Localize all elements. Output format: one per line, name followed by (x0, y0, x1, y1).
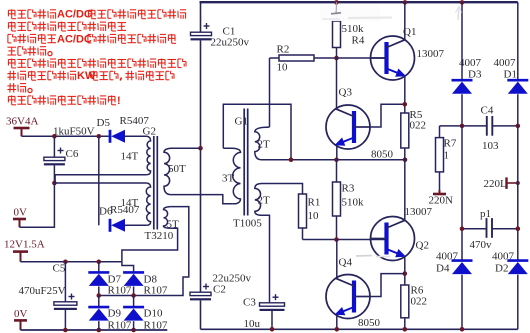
junction D5/D6 cathode node (97, 134, 102, 139)
svg-text:D9: D9 (108, 308, 122, 320)
transistor Q2 13007 (371, 206, 433, 261)
transformer G2 core (154, 136, 158, 230)
wire: midpoint down to Q2 collector (404, 160, 406, 220)
svg-text:D4: D4 (436, 263, 450, 275)
svg-text:220L: 220L (484, 178, 508, 190)
wire: Q2 emitter to R6 (404, 256, 406, 285)
svg-text:Q3: Q3 (339, 87, 353, 99)
junction top rail / Q1 collector (403, 0, 408, 5)
capacitor C1 22u250v (191, 23, 250, 49)
transistor Q1 13007 (371, 26, 445, 80)
transformer G1/T1005 labels (222, 116, 270, 230)
wire: 2T upper top to R2 (269, 58, 271, 127)
capacitor C6 (44, 136, 79, 183)
wire: C1 bottom to C2 top (bus) (200, 40, 202, 292)
svg-text:C3: C3 (243, 297, 256, 309)
svg-text:p1: p1 (480, 208, 491, 220)
svg-text:0V: 0V (14, 308, 28, 320)
svg-text:D3: D3 (468, 69, 482, 81)
svg-text:14T: 14T (121, 197, 139, 209)
wire: Q1 collector to top rail (404, 2, 406, 40)
junction Q4 emitter / rail (335, 327, 340, 332)
svg-text:C5: C5 (53, 263, 66, 275)
svg-text:10: 10 (308, 210, 320, 222)
faint pencil arrow artifact (456, 6, 463, 20)
winding G2 lower 14T (146, 183, 150, 225)
svg-text:510k: 510k (342, 197, 365, 209)
svg-text:13007: 13007 (417, 48, 445, 60)
junction p1 / D3D4 column (460, 226, 465, 231)
node: transformer center tap (52, 181, 57, 186)
transistor Q4 8050 (326, 257, 381, 330)
diode D5 R5407 (97, 115, 150, 143)
resistor R5 022 (401, 109, 426, 160)
svg-text:R1: R1 (308, 197, 321, 209)
junction D7 top (97, 260, 102, 265)
svg-text:AC/DC: AC/DC (57, 33, 92, 45)
svg-text:D10: D10 (144, 308, 163, 320)
diode D8 R107 (123, 272, 168, 296)
svg-text:1: 1 (444, 150, 450, 162)
winding G2 secondary 50T (164, 148, 171, 194)
wire: bottom negative rail (power section) (201, 328, 518, 330)
wire: 5T bottom lead to +12V rail (122, 228, 178, 272)
junction midpoint / 3T-2T node (289, 158, 294, 163)
svg-text:R107: R107 (108, 320, 132, 332)
svg-text:R107: R107 (108, 285, 132, 297)
wire: D5-D6 cathode link (98, 136, 100, 225)
junction C6 top (52, 134, 57, 139)
junction base rail / R4 Q3 (334, 56, 339, 61)
wire: center tap pair (55, 174, 147, 176)
svg-text:0V: 0V (14, 207, 28, 219)
junction top rail / D3 (460, 0, 465, 5)
wire: +12V rail (21, 261, 122, 263)
wire: Q4 emitter to bottom rail (336, 315, 338, 330)
transformer G2/T3210 labels (121, 126, 187, 242)
svg-text:022: 022 (411, 296, 428, 308)
capacitor C5 470uF25V (19, 262, 77, 330)
svg-text:510k: 510k (342, 23, 365, 35)
winding G1 fb lower 2T (255, 184, 262, 216)
svg-text:4007: 4007 (494, 57, 517, 69)
junction C4 line / D3 (460, 124, 465, 129)
svg-text:220N: 220N (429, 195, 454, 207)
svg-text:T1005: T1005 (233, 218, 262, 230)
wire: rail drop to C1 (200, 2, 202, 32)
svg-text:8050: 8050 (358, 317, 381, 329)
svg-text:14T: 14T (121, 151, 139, 163)
wire: top HV rail (200, 1, 518, 3)
svg-text:Q4: Q4 (339, 257, 353, 269)
junction p1 / D1D2 column (516, 226, 521, 231)
wire: 0V to center tap (20, 183, 55, 227)
svg-text:R3: R3 (342, 183, 355, 195)
svg-text:103: 103 (482, 140, 499, 152)
svg-text:C4: C4 (481, 105, 494, 117)
svg-text:13007: 13007 (405, 206, 433, 218)
wire: base rail Q1 (314, 57, 387, 59)
junction D10 bottom (131, 328, 136, 333)
junction Q1 emitter / Q3 base (403, 102, 408, 107)
capacitor C3 10u (243, 294, 285, 330)
junction bridge mid / D7-D9 (97, 293, 102, 298)
wire: Q4 base to Q2 emitter (370, 274, 405, 297)
diode D3 4007 (452, 2, 482, 126)
resistor R3 510k (333, 160, 365, 240)
svg-text:R107: R107 (144, 285, 168, 297)
svg-text:D2: D2 (495, 263, 508, 275)
terminal 220L (484, 177, 520, 190)
diode D2 4007 (492, 251, 528, 330)
junction C4 line / D1 (516, 124, 521, 129)
svg-text:R7: R7 (444, 138, 457, 150)
winding G2 aux 5T (164, 207, 171, 229)
svg-text:G2: G2 (143, 126, 156, 138)
svg-text:10: 10 (277, 62, 289, 74)
white smudge patch (320, 5, 380, 21)
svg-text:D1: D1 (504, 69, 517, 81)
wire: D3-D4 column (461, 126, 463, 261)
junction Q2 emitter / Q4 base (403, 271, 408, 276)
transformer G1 core (244, 109, 248, 216)
resistor R6 022 (401, 285, 427, 330)
capacitor C4 103 (440, 105, 518, 153)
transistor Q3 8050 (326, 87, 394, 161)
diode D1 4007 (494, 2, 529, 126)
svg-text:C6: C6 (66, 148, 79, 160)
svg-text:G1: G1 (235, 116, 248, 128)
junction D4 / rail (460, 327, 465, 332)
svg-text:C2: C2 (213, 284, 226, 296)
junction top rail / R4 (334, 0, 339, 5)
junction C5 top (63, 260, 68, 265)
winding G1 fb upper 2T (255, 127, 270, 160)
wire: bottom rail (12V section) (21, 329, 168, 331)
svg-text:T3210: T3210 (145, 230, 174, 242)
svg-text:12V1.5A: 12V1.5A (4, 239, 45, 251)
wire: 50T bottom to 3T bottom (171, 195, 233, 204)
terminal 0V (12V return) (14, 308, 28, 330)
svg-text:8050: 8050 (371, 149, 394, 161)
junction R6 / rail (403, 327, 408, 332)
wire: 36V rail (22, 135, 109, 137)
faint eraser dashes near Q2 (356, 255, 372, 258)
diode D4 4007 (436, 251, 473, 330)
capacitor C2 22u250v (190, 273, 252, 330)
diode D6 R5407 (99, 204, 147, 232)
junction midpoint / R5 Q2 (403, 158, 408, 163)
svg-text:R107: R107 (144, 320, 168, 332)
wire: base rail Q2 (303, 239, 387, 241)
svg-text:50T: 50T (168, 163, 186, 175)
winding G1 primary 3T (223, 148, 240, 204)
winding G2 upper 14T (147, 136, 151, 174)
svg-text:!: ! (117, 95, 121, 107)
terminal 12V1.5A (4, 239, 45, 262)
wire: 2T lower top to R1 (262, 184, 303, 195)
wire: half-bridge midpoint rail (262, 159, 405, 161)
junction bridge mid / D8-D10 (131, 293, 136, 298)
svg-text:470v: 470v (470, 239, 493, 251)
wire: 2T lower bottom to C3 (262, 215, 270, 303)
junction C1/C2 bus to 50T top (198, 146, 203, 151)
terminal 0V (36V return) (13, 207, 27, 228)
svg-text:22u250v: 22u250v (211, 37, 250, 49)
junction C3 bottom (270, 327, 275, 332)
svg-text:022: 022 (410, 120, 427, 132)
wire: Q3 emitter to midpoint (336, 145, 338, 160)
svg-text:470uF25V: 470uF25V (19, 285, 66, 297)
resistor R4 510k (333, 2, 365, 58)
svg-text:Q2: Q2 (416, 240, 429, 252)
svg-text:10u: 10u (244, 318, 261, 330)
terminal 36V4A (6, 116, 38, 137)
svg-text:36V4A: 36V4A (6, 116, 38, 128)
wire: 3T top frame to midpoint node (223, 104, 291, 160)
svg-text:D5: D5 (97, 117, 111, 129)
diode D7 R107 (88, 262, 132, 297)
resistor R1 10 (299, 194, 321, 240)
junction C5 bottom (63, 328, 68, 333)
wire: 50T top to C1/C2 bus (171, 147, 201, 149)
capacitor p1 470v (462, 208, 518, 251)
wire: Q1 emitter to R5 (404, 76, 406, 114)
wire: Q3 collector to base rail (336, 58, 338, 109)
wire: Q4 collector to base rail2 (336, 240, 338, 279)
svg-text:R2: R2 (277, 44, 290, 56)
diode D10 R107 (123, 296, 168, 332)
svg-text:1kuF50V: 1kuF50V (53, 126, 95, 138)
wire: Q3 base to Q1 emitter (370, 104, 405, 127)
junction base rail2 / R3 Q4 (334, 237, 339, 242)
wire: D1-D2 column (517, 126, 519, 261)
junction D9 bottom (97, 328, 102, 333)
junction midpoint / Q3 emitter R3 (334, 158, 339, 163)
svg-text:AC/DC: AC/DC (57, 9, 92, 21)
diode D9 R107 (88, 296, 132, 332)
resistor R7 1 + 220N terminal (429, 126, 457, 207)
red descriptive chinese text block (7, 9, 186, 107)
svg-text:R4: R4 (352, 35, 365, 47)
wire: 5T top lead to bridge mid (99, 207, 189, 296)
resistor R2 10 (270, 44, 315, 74)
